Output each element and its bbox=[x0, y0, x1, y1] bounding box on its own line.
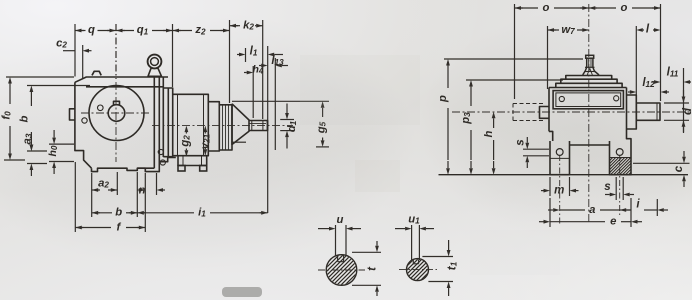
right foot hole bbox=[616, 149, 623, 156]
centerline shaft detail right bbox=[399, 269, 438, 271]
svg-text:b: b bbox=[115, 207, 122, 219]
support feet bbox=[178, 166, 185, 172]
extension line p3 top y=80 bbox=[466, 79, 563, 81]
eyebolt base bbox=[148, 68, 162, 76]
svg-text:p: p bbox=[437, 95, 449, 103]
svg-text:s: s bbox=[604, 181, 610, 193]
right foot hatch top line bbox=[610, 157, 632, 159]
dimension k2 line bbox=[230, 25, 241, 27]
gearbox left edge bbox=[75, 82, 92, 168]
svg-text:q: q bbox=[88, 24, 95, 36]
dimension g5 arrows bbox=[322, 108, 324, 111]
dimension l1 bbox=[237, 54, 239, 56]
extension line l1 left x=245.5 bbox=[245, 48, 247, 62]
right bearing cap bbox=[627, 95, 637, 129]
housing top step1 bbox=[566, 76, 612, 80]
housing main outline bbox=[549, 87, 627, 89]
dimension l13 bbox=[259, 65, 261, 67]
extension line l left x=636.3 bbox=[635, 26, 637, 103]
extension line i right x=657.3 bbox=[656, 199, 658, 216]
dimension g2 bbox=[185, 132, 187, 133]
dimension o right bbox=[589, 7, 616, 9]
dimension m outside arrows bbox=[541, 190, 544, 192]
fan cover ribs bbox=[219, 105, 232, 150]
dimension t outside arrows bbox=[376, 241, 378, 246]
dimension d outside arrows bbox=[683, 90, 685, 97]
centerline horizontal right view bbox=[452, 111, 689, 113]
extension line l11/d x=683.5 bbox=[683, 68, 685, 132]
face bolt right bbox=[614, 96, 619, 101]
extension line cone face x=229.5 bbox=[229, 20, 231, 103]
dimension c outside arrows bbox=[683, 151, 685, 157]
left foot hole bbox=[556, 149, 563, 156]
extension lines u1 bbox=[411, 225, 413, 260]
dimension a bbox=[560, 209, 585, 211]
centerline vertical left view bbox=[115, 82, 117, 162]
svg-text:e: e bbox=[610, 215, 616, 227]
motor seam lines bbox=[177, 94, 179, 155]
dimension i bbox=[620, 209, 631, 211]
extension line left stub end x=514.5 bbox=[514, 4, 516, 99]
ghost bleed block 1 bbox=[300, 55, 420, 125]
shaft chamfer lines bbox=[251, 121, 253, 131]
cone fan cover bbox=[232, 104, 249, 145]
keyway slot right bbox=[412, 260, 414, 264]
dimension l12 outside arrows bbox=[628, 91, 630, 93]
extension lines u bbox=[335, 225, 337, 256]
extension lines d1 bbox=[280, 119, 294, 121]
extension line shaft chamfer x=262.7 bbox=[262, 20, 264, 119]
bolt hole flange lower bbox=[160, 160, 165, 165]
input shaft plug stem bbox=[586, 58, 588, 67]
svg-text:b: b bbox=[18, 115, 30, 122]
extension line g5 top bbox=[232, 100, 329, 102]
gearbox right wall lines bbox=[153, 77, 155, 168]
centerline vertical right view bbox=[588, 4, 590, 224]
extension line t top bbox=[352, 251, 381, 253]
output shaft chamfer bbox=[656, 103, 658, 120]
extension line output axis x=116 (centerline) bbox=[115, 24, 117, 79]
hidden shaft stub dashed bbox=[513, 103, 544, 105]
output bore circle bbox=[108, 105, 125, 122]
dimension a3 outside arrows bbox=[30, 139, 32, 145]
input shaft flare bbox=[583, 67, 587, 75]
dimension a2 bbox=[92, 189, 100, 191]
keyway slot left bbox=[337, 255, 339, 262]
extension line right shaft end top x=660.5 bbox=[660, 4, 662, 101]
dimension s right outside arrows bbox=[605, 194, 610, 196]
foot center dashed right bbox=[619, 155, 621, 215]
housing top step2 bbox=[561, 79, 617, 83]
dimension v21 bbox=[204, 132, 206, 133]
foot center dashed left bbox=[559, 155, 561, 224]
extension line c2 x=82.5 bbox=[82, 45, 84, 79]
input shaft plug cap bbox=[586, 55, 594, 58]
dimension b bottom bbox=[92, 212, 112, 214]
left foot bbox=[550, 141, 570, 175]
oil plug on top bbox=[92, 71, 101, 75]
housing lower left edge bbox=[549, 131, 553, 141]
housing bottom between feet bbox=[570, 144, 610, 146]
dimension q line bbox=[75, 30, 86, 32]
extension line t bottom bbox=[352, 284, 381, 286]
extension line p top y=59 bbox=[444, 58, 583, 60]
dimension w7 bbox=[548, 29, 560, 31]
extension line g5 bottom bbox=[232, 141, 246, 143]
bolt hole flange upper bbox=[158, 149, 163, 154]
gearbox left pad bbox=[70, 109, 75, 120]
motor rear ring bbox=[208, 102, 219, 151]
adapter plate bbox=[163, 88, 172, 157]
dimension e bbox=[550, 221, 605, 223]
output shaft right view bbox=[636, 103, 660, 120]
extension line a3 bottom y=163.5 bbox=[27, 163, 47, 165]
extension line h0 top y=144.1 bbox=[49, 143, 74, 145]
motor block bbox=[173, 94, 209, 155]
extension line b right x=137.3 bbox=[136, 172, 138, 217]
dimension s left outside arrows bbox=[526, 137, 528, 143]
right foot hatching bbox=[596, 158, 632, 175]
centerline shaft detail left bbox=[318, 269, 365, 271]
extension line t1 top bbox=[422, 256, 453, 258]
extension line b/a2 x=91.7 bbox=[91, 173, 93, 217]
svg-text:o: o bbox=[543, 2, 550, 14]
extension line f left x=75.3 bbox=[74, 162, 76, 232]
extension line n right x=156.5 bbox=[156, 173, 158, 195]
dimension b left bbox=[30, 92, 32, 97]
gearbox bottom edge bbox=[137, 167, 154, 169]
ghost bleed block 2 bbox=[355, 160, 400, 192]
shaft keyway line bbox=[250, 122, 267, 124]
gearbox top flange inner line bbox=[86, 86, 163, 88]
face bolt left bbox=[559, 96, 564, 101]
gearbox bottom profile bbox=[92, 158, 176, 172]
extension line f/n x=145.3 bbox=[144, 173, 146, 232]
svg-text:c: c bbox=[673, 165, 685, 172]
extension line h0 bottom y=161.5 bbox=[49, 161, 74, 163]
dimension h4 bbox=[244, 72, 247, 74]
dimension t1 outside arrows bbox=[448, 240, 450, 250]
svg-text:u: u bbox=[337, 214, 344, 226]
dimension k2 arrows bbox=[236, 25, 238, 27]
output shaft big circle bbox=[89, 86, 144, 141]
extension line b bottom y=151 bbox=[27, 150, 47, 152]
dimension q1 arrows bbox=[123, 30, 126, 32]
extension line e left x=550 bbox=[549, 198, 551, 227]
bore keyway notch bbox=[114, 101, 120, 105]
dimension z2 line bbox=[173, 30, 193, 32]
extension lines s right bbox=[615, 177, 617, 200]
extension line body left edge x=75 bbox=[74, 24, 76, 77]
extension line c top bbox=[633, 162, 690, 164]
svg-text:o: o bbox=[621, 2, 628, 14]
dimension p bbox=[447, 66, 449, 73]
extension line l13 right x=275.3 bbox=[274, 58, 276, 150]
dimension p3 bbox=[470, 87, 472, 94]
scan smudge artifact bbox=[222, 287, 262, 297]
right foot bbox=[610, 141, 632, 175]
dimension l11 outside arrows bbox=[652, 81, 654, 83]
face cover inner bbox=[556, 93, 621, 107]
extension line t1 bottom bbox=[428, 281, 453, 283]
extension line e right x=631 bbox=[630, 198, 632, 227]
extension lines d shaft bbox=[664, 102, 689, 104]
under-motor support block bbox=[178, 156, 207, 166]
dimension o left bbox=[515, 7, 539, 9]
dimension h bbox=[493, 118, 495, 125]
shaft section circle left bbox=[326, 255, 357, 286]
dimension q arrows bbox=[82, 30, 85, 32]
dimension q1 line bbox=[116, 30, 134, 32]
dimension f bbox=[75, 227, 111, 229]
dimension u outside arrows bbox=[318, 228, 329, 230]
bolt hole left face lower bbox=[82, 118, 87, 123]
dimension d1 outside arrows bbox=[286, 104, 288, 114]
shaft section circle right bbox=[407, 259, 429, 281]
bolt hole left face upper bbox=[98, 105, 104, 111]
extension line a2 right x=117.3 bbox=[116, 172, 118, 195]
svg-text:h: h bbox=[483, 130, 495, 137]
motor axis centerline bbox=[152, 125, 293, 127]
shaft end face bbox=[267, 121, 269, 131]
dimension u1 outside arrows bbox=[395, 228, 405, 230]
dimension c2 line+arrow bbox=[63, 50, 75, 52]
input shaft left view bbox=[249, 121, 268, 131]
extension line circle top y=85.5 (b) bbox=[27, 85, 90, 87]
housing top step3 bbox=[556, 83, 622, 87]
svg-text:a: a bbox=[589, 204, 595, 216]
dimension n arrows bbox=[137, 189, 139, 191]
extension line adapter face x=172.5 bbox=[172, 24, 174, 87]
extension line h4 x=253.2 bbox=[252, 66, 254, 118]
dimension l bbox=[643, 29, 644, 31]
left bearing pad bbox=[540, 107, 550, 119]
centerline horizontal left view bbox=[81, 112, 151, 114]
extension line body top y=77 (f0) bbox=[6, 76, 74, 78]
extension line shaft end x=267.7 bbox=[267, 46, 269, 213]
face cover outer bbox=[553, 91, 623, 109]
svg-text:n: n bbox=[139, 184, 146, 196]
dimension z2 arrows bbox=[179, 30, 181, 32]
svg-text:s: s bbox=[515, 139, 527, 145]
dimension f0 bbox=[9, 84, 11, 91]
ground baseline bbox=[439, 174, 689, 176]
svg-text:d: d bbox=[682, 107, 692, 115]
gearbox top edge bbox=[75, 77, 168, 82]
extension line f0 bottom y=160 bbox=[4, 159, 25, 161]
dimension h0 outside arrows bbox=[53, 130, 55, 138]
extension line w7 x=547.5 bbox=[547, 26, 549, 89]
extension lines m bbox=[549, 177, 551, 196]
eyebolt ring bbox=[148, 55, 162, 69]
ghost bleed block 3 bbox=[470, 230, 560, 275]
housing lower right edge bbox=[627, 126, 632, 141]
dimension i1 bbox=[137, 212, 194, 214]
extension lines s left bbox=[523, 148, 549, 150]
